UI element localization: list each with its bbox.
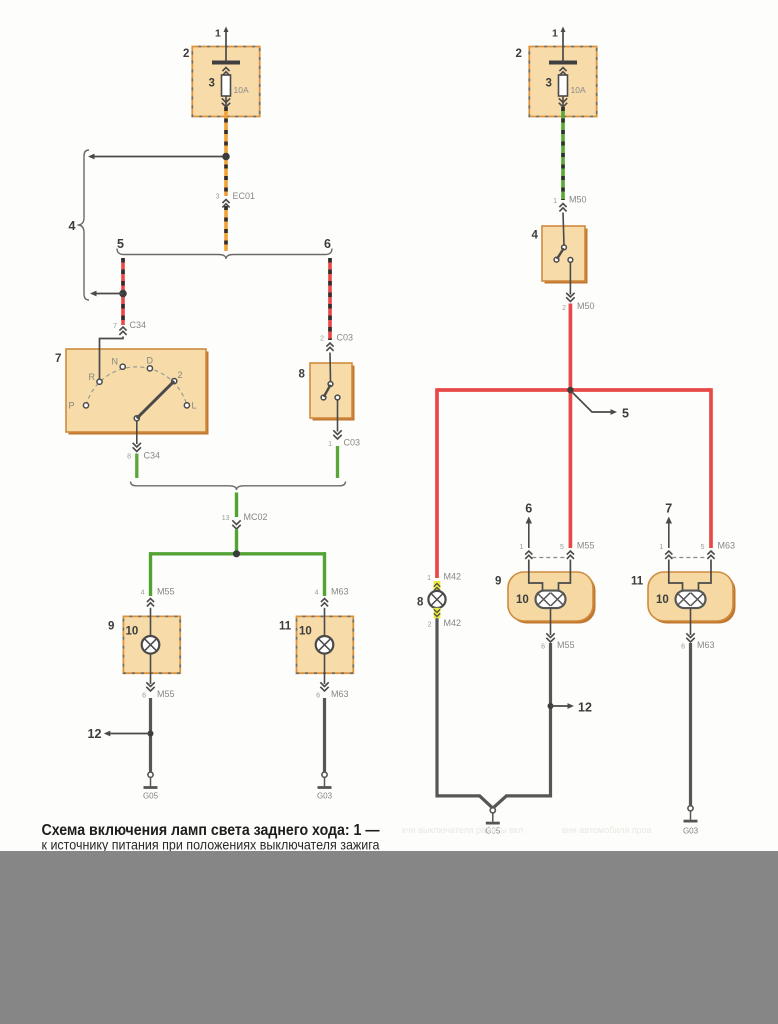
svg-text:12: 12 (88, 727, 102, 741)
svg-text:D: D (147, 356, 154, 366)
svg-text:1: 1 (215, 28, 221, 40)
svg-text:MC02: MC02 (244, 512, 268, 522)
svg-text:M50: M50 (569, 195, 587, 205)
svg-text:3: 3 (216, 194, 220, 201)
svg-text:5: 5 (622, 407, 629, 421)
svg-text:4: 4 (69, 219, 76, 233)
svg-text:3: 3 (209, 78, 215, 90)
svg-text:6: 6 (142, 693, 146, 700)
svg-text:7: 7 (55, 353, 61, 365)
svg-text:6: 6 (324, 237, 331, 251)
svg-text:M63: M63 (331, 587, 349, 597)
svg-text:5: 5 (701, 544, 705, 551)
svg-text:1: 1 (553, 198, 557, 205)
svg-text:10: 10 (126, 626, 139, 638)
svg-text:M63: M63 (331, 689, 349, 699)
svg-text:M42: M42 (444, 618, 462, 628)
svg-text:7: 7 (113, 323, 117, 330)
svg-text:G03: G03 (683, 827, 699, 836)
svg-text:8: 8 (417, 597, 424, 609)
svg-text:10A: 10A (571, 85, 586, 95)
svg-text:5: 5 (117, 237, 124, 251)
svg-text:R: R (89, 372, 96, 382)
svg-text:10: 10 (656, 594, 669, 606)
svg-text:11: 11 (279, 621, 292, 633)
svg-text:M55: M55 (157, 689, 175, 699)
svg-text:к источнику питания при положе: к источнику питания при положениях выклю… (42, 837, 380, 853)
svg-text:C03: C03 (344, 438, 361, 448)
svg-text:9: 9 (495, 576, 501, 588)
svg-text:1: 1 (552, 28, 558, 40)
svg-text:8: 8 (299, 369, 306, 381)
svg-text:C34: C34 (144, 451, 161, 461)
svg-text:1: 1 (427, 575, 431, 582)
svg-text:EC01: EC01 (233, 191, 256, 201)
svg-text:6: 6 (525, 502, 532, 516)
svg-text:P: P (68, 401, 74, 411)
svg-text:кчи выключателя работы вкл: кчи выключателя работы вкл (402, 825, 523, 835)
svg-text:10A: 10A (234, 85, 249, 95)
svg-text:C34: C34 (130, 320, 147, 330)
svg-text:1: 1 (659, 544, 663, 551)
svg-text:L: L (192, 401, 197, 411)
svg-text:4: 4 (532, 230, 539, 242)
svg-text:9: 9 (108, 621, 114, 633)
svg-text:2: 2 (320, 336, 324, 343)
svg-text:4: 4 (141, 590, 145, 597)
svg-text:6: 6 (541, 644, 545, 651)
svg-text:13: 13 (222, 515, 230, 522)
svg-text:8: 8 (127, 454, 131, 461)
svg-text:11: 11 (631, 576, 644, 588)
svg-text:вни автомобиля пров: вни автомобиля пров (562, 825, 652, 835)
svg-text:M55: M55 (577, 541, 595, 551)
svg-text:2: 2 (178, 370, 183, 380)
svg-text:3: 3 (546, 78, 552, 90)
svg-text:6: 6 (681, 644, 685, 651)
svg-text:12: 12 (578, 701, 592, 715)
svg-text:4: 4 (315, 590, 319, 597)
svg-text:M50: M50 (577, 301, 595, 311)
svg-text:10: 10 (516, 594, 529, 606)
svg-text:M55: M55 (157, 587, 175, 597)
svg-text:2: 2 (562, 305, 566, 312)
svg-text:M42: M42 (444, 572, 462, 582)
svg-text:G03: G03 (317, 792, 333, 801)
svg-text:2: 2 (183, 48, 189, 60)
svg-text:C03: C03 (337, 333, 354, 343)
svg-text:2: 2 (516, 48, 522, 60)
svg-text:N: N (112, 357, 119, 367)
svg-text:G05: G05 (143, 792, 159, 801)
svg-text:M63: M63 (718, 541, 736, 551)
svg-text:6: 6 (316, 693, 320, 700)
svg-text:1: 1 (519, 544, 523, 551)
svg-text:2: 2 (428, 622, 432, 629)
svg-text:M55: M55 (557, 640, 575, 650)
svg-text:5: 5 (560, 544, 564, 551)
svg-text:7: 7 (665, 502, 672, 516)
svg-text:1: 1 (328, 441, 332, 448)
svg-text:10: 10 (299, 626, 312, 638)
svg-text:M63: M63 (697, 640, 715, 650)
